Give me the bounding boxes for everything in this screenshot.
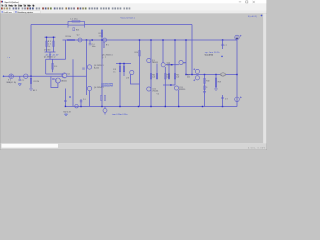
svg-text:R5: R5 <box>99 33 102 35</box>
resistor R5 top <box>101 32 103 38</box>
svg-text:R4: R4 <box>54 66 57 68</box>
wire Q14 stubs <box>104 106 106 114</box>
node col1 top <box>139 39 140 40</box>
ground right <box>215 89 218 91</box>
emitter resistor R14 <box>150 74 152 80</box>
svg-text:R16: R16 <box>176 74 179 76</box>
resistor R18 <box>204 78 206 83</box>
wire input line <box>4 75 63 77</box>
wire vert x102 <box>101 31 103 106</box>
node right x192 <box>191 74 192 75</box>
ground bottom blue <box>65 114 68 116</box>
capacitor C4 <box>89 44 92 45</box>
svg-text:C1: C1 <box>22 80 25 82</box>
wire vert col5 <box>185 40 187 75</box>
svg-text:1k: 1k <box>113 72 115 74</box>
svg-text:V(out)/I(L1): V(out)/I(L1) <box>121 16 135 19</box>
node bottom x222.5 <box>222 106 223 107</box>
svg-text:Q10: Q10 <box>167 62 171 64</box>
wire Q2b emitter down <box>64 89 66 107</box>
wire fb col right <box>53 37 55 52</box>
transistor Q11 <box>179 60 183 64</box>
capacitor C6 <box>80 101 83 102</box>
status bar <box>0 143 267 150</box>
node right x204 <box>204 74 205 75</box>
diode D2 <box>195 76 199 80</box>
svg-text:R3: R3 <box>48 41 51 43</box>
wire top rail right part <box>85 24 193 26</box>
svg-text:Window: Window <box>27 4 31 7</box>
svg-text:R6: R6 <box>106 44 109 46</box>
wire vert x216 <box>215 75 217 89</box>
wire fb rail bottom <box>45 51 56 53</box>
resistor R3 <box>46 41 48 47</box>
svg-text:Q2: Q2 <box>77 34 80 36</box>
node bottom x165.3 <box>165 106 166 107</box>
transistor Q5 <box>103 38 107 42</box>
node q12 link <box>170 84 171 85</box>
wire Q11 to col5 <box>183 62 186 64</box>
node col4 top <box>174 39 175 40</box>
capacitor near Q2b <box>52 78 55 79</box>
node bottom left <box>65 106 66 107</box>
svg-text:C8: C8 <box>225 99 228 101</box>
plus mark I1 <box>240 35 242 37</box>
wire fb col left <box>46 37 48 52</box>
node mid a <box>86 39 87 40</box>
node x124 <box>123 63 124 64</box>
svg-text:View: View <box>14 4 17 7</box>
wire Q1 out line <box>67 75 87 77</box>
svg-text:SINE(0 1 1k): SINE(0 1 1k) <box>7 82 17 84</box>
diode D1 <box>195 69 199 73</box>
node input junction <box>30 76 31 77</box>
svg-text:Q1 2N5551 x2: Q1 2N5551 x2 <box>44 57 56 59</box>
svg-text:R19: R19 <box>218 81 221 83</box>
svg-text:R1 22k: R1 22k <box>34 81 40 83</box>
wire vert col4 upper <box>174 40 176 85</box>
current source I2 <box>235 97 240 102</box>
capacitor C5 <box>82 68 85 69</box>
wire C7 drop <box>222 40 224 49</box>
inductor L1 and resistor R13 parallel network <box>68 21 85 28</box>
wire left leg x45.7 <box>46 59 62 74</box>
svg-text:Q8: Q8 <box>126 78 129 80</box>
resistor R8 <box>119 66 121 72</box>
svg-text:R2 10k: R2 10k <box>66 36 72 38</box>
svg-text:2N5401: 2N5401 <box>61 81 67 83</box>
capacitor C7 <box>221 44 224 45</box>
transistor Q2 <box>78 38 82 42</box>
wire U loop <box>51 77 58 88</box>
capacitor C1 <box>19 79 22 80</box>
emitter resistor R15 <box>156 74 158 80</box>
emitter resistor R16 <box>165 74 167 80</box>
svg-text:.model 2N5551 NPN(: .model 2N5551 NPN( <box>101 83 114 85</box>
window buttons minimize maximize close <box>239 1 255 3</box>
ground under C1 <box>18 84 21 86</box>
wire vert col4 lower <box>178 90 180 106</box>
transistor Q3 <box>87 65 91 69</box>
wire top rail <box>31 24 68 26</box>
svg-text:Vb: Vb <box>157 93 159 95</box>
tab row <box>0 11 267 14</box>
svg-text:47u 680: 47u 680 <box>44 50 50 52</box>
wire Q10-Q11 link <box>166 64 179 66</box>
svg-text:100u: 100u <box>92 46 96 48</box>
resistor R19 <box>215 78 217 87</box>
wire Q4 down <box>89 91 91 107</box>
svg-text:Q9: Q9 <box>152 60 155 62</box>
svg-text:C4: C4 <box>92 44 95 46</box>
svg-text:Q6 2N5551: Q6 2N5551 <box>102 54 113 56</box>
svg-text:C7: C7 <box>224 45 227 47</box>
wire link y63.5 <box>116 63 131 65</box>
svg-text:.ic: .ic <box>182 63 186 65</box>
svg-text:+41.2V +41.0V: +41.2V +41.0V <box>45 55 59 57</box>
wire vert short a <box>156 64 158 80</box>
ground below R1 <box>30 89 33 91</box>
plus mark D1 <box>193 68 195 70</box>
wire vert x120 <box>119 64 121 107</box>
svg-text:V(out) I(R18): V(out) I(R18) <box>205 54 214 57</box>
emitter resistor R17 <box>168 74 170 80</box>
svg-text:.op .four 10 1k: .op .four 10 1k <box>205 51 220 54</box>
emitter resistor R18e <box>174 74 176 80</box>
wire bottom rail <box>65 106 237 108</box>
svg-text:Q12: Q12 <box>152 88 156 90</box>
svg-text:R14: R14 <box>152 74 155 76</box>
svg-text:Q13: Q13 <box>179 87 183 89</box>
transistor Q10 <box>161 63 165 67</box>
svg-text:0.00s, 0.00V: 0.00s, 0.00V <box>248 147 266 149</box>
svg-text:R15: R15 <box>167 74 170 76</box>
node bottom x151 <box>150 106 151 107</box>
wire Q8 drop <box>131 75 140 85</box>
transistor Q1 <box>62 73 67 78</box>
wire drop x65.6 <box>65 40 67 59</box>
right scrollbar <box>263 14 267 144</box>
svg-text:R22 0.33: R22 0.33 <box>64 111 71 113</box>
schematic canvas <box>0 14 263 144</box>
capacitor C2 <box>53 41 55 47</box>
wire vert x86.5 <box>86 40 88 95</box>
svg-text:R10: R10 <box>135 52 139 54</box>
svg-text:V(n001): V(n001) <box>248 16 257 18</box>
app icon <box>1 1 2 3</box>
svg-text:R13: R13 <box>76 29 79 31</box>
wire right drop from top rail <box>191 25 193 75</box>
wire vert x124 <box>123 64 125 77</box>
capacitor C8 <box>221 98 224 99</box>
transistor Q13 <box>174 86 178 90</box>
plus mark I2 <box>240 96 242 98</box>
svg-text:1k: 1k <box>99 36 101 38</box>
node x120 <box>119 63 120 64</box>
node x102 bottom <box>101 106 102 107</box>
plus mark D2 <box>193 79 195 81</box>
wire C1 drop <box>19 76 21 79</box>
transistor Q12 <box>147 87 151 91</box>
wire vert x204.5 <box>204 75 206 107</box>
wire R1 drop <box>30 76 32 88</box>
node bottom cap <box>80 106 81 107</box>
svg-text:B=200: B=200 <box>94 67 99 69</box>
wire vert col2 <box>150 40 152 106</box>
svg-text:L1 15u: L1 15u <box>71 18 78 20</box>
current source I1 <box>235 35 239 39</box>
node col3 top <box>162 39 163 40</box>
svg-text:2N5401: 2N5401 <box>152 91 158 93</box>
capacitor Cb left <box>64 100 67 101</box>
node right x186 <box>185 74 186 75</box>
wire C4 drop <box>89 40 91 43</box>
transistor Q8 <box>130 70 134 74</box>
node bottom x202.5 <box>202 106 203 107</box>
svg-text:R17: R17 <box>187 74 190 76</box>
resistor R2 on mid rail <box>68 39 75 41</box>
net flag top right <box>261 15 263 17</box>
wire C8 drop <box>222 95 224 106</box>
capacitor symbol E1 <box>24 74 28 78</box>
svg-text:MJ2955: MJ2955 <box>179 89 185 91</box>
wire R4 column <box>52 59 54 72</box>
sense resistor above rail a <box>100 96 102 101</box>
resistor R10 <box>139 51 141 57</box>
svg-text:R8: R8 <box>113 69 116 71</box>
resistor R18b <box>204 86 206 90</box>
svg-text:Simulate: Simulate <box>18 4 23 7</box>
node x237 mid <box>236 74 237 75</box>
net name oval out <box>220 73 225 76</box>
node x222.6 mid <box>222 39 223 40</box>
svg-text:R18: R18 <box>206 81 209 83</box>
svg-text:V2: V2 <box>8 80 11 82</box>
wire vert col3 upper <box>162 40 164 63</box>
wire Q12 link <box>163 84 175 86</box>
node right x216 <box>215 74 216 75</box>
ammeter on bottom rail <box>75 105 78 108</box>
wire vert col3 lower <box>164 67 166 106</box>
input net flag <box>3 75 5 77</box>
transistor Q2b <box>55 78 60 83</box>
svg-text:.model 2N5401 PNP(: .model 2N5401 PNP( <box>101 86 113 88</box>
transistor Q9 <box>147 58 151 62</box>
node x120 bottom <box>119 106 120 107</box>
title bar <box>0 0 267 3</box>
net flag near op <box>221 55 223 57</box>
node bottom x138.5 <box>138 106 139 107</box>
sense resistor above rail b <box>104 96 106 101</box>
resistor R13 below L1 <box>73 28 75 31</box>
node fb left <box>46 37 47 38</box>
wire mid rail <box>63 39 238 41</box>
svg-text:.tran 0 10m 0 10u: .tran 0 10m 0 10u <box>112 113 128 116</box>
resistor R6 <box>103 43 105 48</box>
svg-text:0.22: 0.22 <box>152 76 155 78</box>
svg-text:C2: C2 <box>48 43 51 45</box>
resistor R4 <box>52 63 54 69</box>
wire vert x237 <box>236 40 238 106</box>
node bottom x178.7 <box>178 106 179 107</box>
node mid b <box>92 39 93 40</box>
resistor R9 <box>123 66 125 72</box>
wire fb to Q1 node <box>49 52 51 59</box>
svg-text:0.22: 0.22 <box>187 76 190 78</box>
node x102 mid <box>101 39 102 40</box>
window background <box>0 0 267 150</box>
resistor R1 <box>30 78 32 83</box>
svg-text:1k: 1k <box>48 46 50 48</box>
wire right mid line <box>186 74 237 76</box>
wire vert col1 <box>139 40 141 106</box>
node q10 q11 link <box>171 64 172 65</box>
net flag above R5 <box>101 29 103 31</box>
voltage source V2 <box>9 74 14 79</box>
menu bar <box>0 3 267 7</box>
node fb right <box>53 37 54 38</box>
transistor Q4 <box>87 86 91 90</box>
window edges <box>0 0 1 150</box>
net flag V- <box>69 96 71 98</box>
svg-text:C6: C6 <box>83 99 86 101</box>
ground mid right <box>203 92 206 94</box>
toolbar <box>0 7 267 11</box>
node col5 top <box>185 39 186 40</box>
wire link y59.2 <box>46 58 66 60</box>
svg-text:0.22: 0.22 <box>167 76 170 78</box>
wire vert x73 <box>72 59 74 106</box>
transistor Q14 below rail <box>103 109 107 113</box>
svg-text:0.22: 0.22 <box>176 76 179 78</box>
wire C6 above rail <box>80 99 82 106</box>
svg-text:Q1: Q1 <box>67 73 70 75</box>
node col2 top <box>150 39 151 40</box>
wire left drop from top rail <box>30 25 32 77</box>
svg-text:in: in <box>8 57 10 59</box>
wire vert short b <box>168 64 170 80</box>
wire fb rail top <box>45 36 56 38</box>
